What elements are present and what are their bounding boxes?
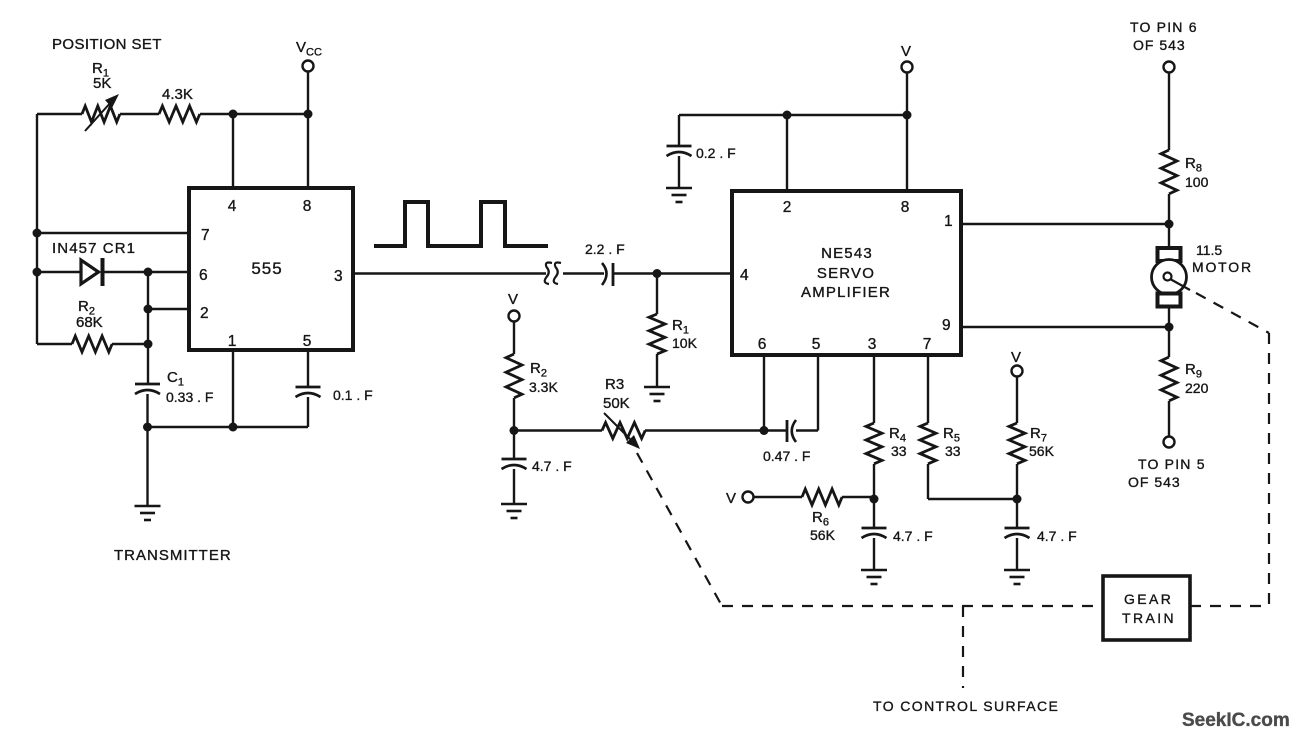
svg-text:6: 6	[758, 336, 767, 353]
resistor R2 68K	[72, 336, 112, 352]
pin 8 label	[303, 198, 312, 215]
pulse waveform	[374, 202, 548, 246]
pin 3 label NE543	[868, 336, 877, 353]
svg-text:3: 3	[334, 268, 343, 285]
wire V to R7	[1016, 377, 1018, 423]
pin 1 label	[228, 333, 237, 350]
svg-text:4.7 . F: 4.7 . F	[532, 458, 572, 474]
pin 7 label	[201, 227, 210, 244]
wire break to cap	[563, 272, 604, 274]
svg-text:TO PIN 6: TO PIN 6	[1130, 19, 1198, 35]
label R7 56K	[1029, 425, 1055, 459]
node 68K junction	[144, 340, 153, 349]
label 555	[251, 259, 282, 278]
label R4 33	[889, 425, 907, 459]
svg-text:4.3K: 4.3K	[162, 86, 193, 103]
svg-text:0.47 . F: 0.47 . F	[763, 448, 810, 464]
wire R9 to terminal	[1168, 401, 1170, 436]
label R6 56K	[810, 509, 836, 543]
wire diode cathode to pin 6	[103, 271, 190, 273]
svg-text:33: 33	[945, 443, 961, 459]
pin 1 label NE543	[944, 213, 953, 230]
svg-text:4.7 . F: 4.7 . F	[893, 528, 933, 544]
svg-text:AMPLIFIER: AMPLIFIER	[801, 284, 891, 301]
svg-text:1: 1	[228, 333, 237, 350]
wire to R9	[1168, 327, 1170, 357]
wire pin 2 up	[786, 115, 788, 191]
svg-text:V: V	[726, 490, 736, 507]
node R2 junction	[510, 426, 519, 435]
svg-text:TRANSMITTER: TRANSMITTER	[114, 547, 232, 564]
node R7 junction	[1013, 495, 1022, 504]
capacitor 4.7uF R2 branch	[502, 431, 527, 470]
pin 4 label	[228, 198, 237, 215]
ground 4.7uF R2 branch	[501, 504, 527, 518]
node pin2 junction	[144, 305, 153, 314]
svg-text:V: V	[508, 291, 518, 308]
resistor R2 68K label	[76, 298, 103, 331]
svg-text:4: 4	[228, 198, 237, 215]
diode CR1	[81, 258, 103, 286]
wire 68K left	[37, 343, 72, 345]
wire pin 1 down	[232, 350, 234, 427]
svg-text:GEAR: GEAR	[1124, 591, 1173, 607]
potentiometer R1 value label	[92, 60, 111, 92]
watermark SeekIC.com	[1182, 710, 1290, 731]
wire 0.2uF to ground	[678, 156, 680, 188]
wire R4 to junction	[873, 464, 875, 499]
wire top-left rail	[37, 113, 308, 115]
wire pin 3 down	[873, 355, 875, 423]
label 11.5 MOTOR	[1192, 242, 1253, 275]
capacitor 4.7uF R4	[862, 499, 887, 538]
wire ground stem transmitter	[146, 427, 148, 506]
op-amp 555 box	[189, 188, 353, 350]
svg-text:100: 100	[1185, 174, 1209, 190]
wire VCC to pin 8	[307, 72, 309, 188]
dashed link motor shaft	[1196, 293, 1269, 333]
wire 0.1uF to rail	[307, 397, 309, 427]
label V R6	[726, 490, 736, 507]
resistor R5 33	[920, 423, 936, 464]
pin 9 label NE543	[942, 317, 951, 334]
svg-text:5: 5	[812, 336, 821, 353]
label R3 50K	[603, 376, 630, 412]
wire junction to R3	[514, 429, 602, 431]
label IN457 CR1	[52, 240, 136, 257]
label 0.1uF	[333, 387, 373, 403]
wire R7 to junction	[1016, 464, 1018, 499]
pin 4 label NE543	[740, 267, 749, 284]
label V NE543	[901, 43, 911, 60]
wire R5 to R7 junction	[928, 464, 1017, 499]
terminal pin6 543	[1164, 62, 1175, 73]
label 0.2uF	[696, 145, 736, 161]
wire 68K right	[112, 343, 148, 345]
svg-text:OF 543: OF 543	[1133, 37, 1186, 53]
svg-text:1: 1	[944, 213, 953, 230]
wire mid vertical	[147, 272, 149, 384]
terminal V R6	[743, 492, 754, 503]
svg-text:6: 6	[199, 267, 208, 284]
wire pin 9 NE543	[961, 326, 1169, 328]
label R5 33	[943, 425, 961, 459]
svg-text:220: 220	[1185, 380, 1209, 396]
svg-text:4.7 . F: 4.7 . F	[1037, 528, 1077, 544]
wire pin 6 down	[763, 355, 765, 431]
label GEAR TRAIN	[1122, 591, 1176, 626]
svg-text:IN457 CR1: IN457 CR1	[52, 240, 136, 257]
wire rail corner to 0.2uF	[678, 115, 680, 146]
node bottom rail pin1	[229, 423, 238, 432]
pin 6 label	[199, 267, 208, 284]
ground R1	[644, 387, 670, 401]
potentiometer R3 50K	[602, 413, 645, 449]
wire pin 5 down	[817, 355, 819, 431]
svg-text:3: 3	[868, 336, 877, 353]
terminal pin5 543	[1164, 437, 1175, 448]
svg-text:0.1 . F: 0.1 . F	[333, 387, 373, 403]
label TRANSMITTER	[114, 547, 232, 564]
svg-text:TO PIN 5: TO PIN 5	[1138, 456, 1206, 472]
wire R6 to R4 junction	[842, 496, 874, 498]
dashed link gear train right	[1190, 605, 1269, 607]
svg-text:POSITION SET: POSITION SET	[52, 36, 162, 53]
wire terminal to R8	[1168, 73, 1170, 150]
wire to pin 7	[37, 232, 189, 234]
ground 4.7uF R4	[861, 570, 887, 584]
wire R3 to pin6 node	[645, 429, 764, 431]
svg-text:SeekIC.com: SeekIC.com	[1182, 710, 1290, 731]
node motor bottom junction	[1165, 323, 1174, 332]
label NE543 SERVO AMPLIFIER	[801, 245, 891, 301]
label C1 0.33uF	[166, 369, 213, 405]
node pin7 junction	[33, 229, 42, 238]
svg-text:TO CONTROL SURFACE: TO CONTROL SURFACE	[873, 698, 1059, 714]
label V R2	[508, 291, 518, 308]
pin 5 label	[303, 333, 312, 350]
ground 4.7uF R7	[1004, 570, 1030, 584]
svg-text:2.2 . F: 2.2 . F	[585, 241, 625, 257]
node junction top B	[304, 110, 313, 119]
resistor R7 56K	[1009, 423, 1025, 464]
label 2.2uF	[585, 241, 625, 257]
resistor R2 3.3K	[506, 354, 522, 398]
resistor R1 10K	[649, 314, 665, 354]
svg-text:68K: 68K	[76, 314, 103, 331]
svg-text:NE543: NE543	[821, 245, 873, 262]
terminal V R2	[509, 311, 520, 322]
label R8 100	[1185, 155, 1209, 190]
wire V to pin 8	[906, 73, 908, 191]
svg-text:2: 2	[200, 305, 209, 322]
dashed link control surface stem	[962, 606, 964, 688]
svg-text:0.2 . F: 0.2 . F	[696, 145, 736, 161]
label VCC	[296, 39, 322, 59]
dashed link R3 to gear train	[637, 453, 722, 606]
capacitor 4.7uF R7	[1005, 499, 1030, 538]
wire R1 10K top	[656, 274, 658, 315]
label R9 220	[1185, 361, 1209, 396]
svg-text:TRAIN: TRAIN	[1122, 610, 1176, 626]
label R2 3.3K	[529, 360, 558, 395]
node top rail pin2	[783, 111, 792, 120]
node pin6 cap junction	[760, 426, 769, 435]
motor M1	[1152, 248, 1191, 307]
dashed link horizontal to gear train	[722, 605, 1103, 607]
svg-text:56K: 56K	[1029, 443, 1055, 459]
pin 8 label NE543	[901, 199, 910, 216]
svg-text:7: 7	[923, 336, 932, 353]
svg-text:MOTOR: MOTOR	[1192, 259, 1253, 275]
pin 5 label NE543	[812, 336, 821, 353]
svg-text:50K: 50K	[603, 395, 630, 412]
label 0.47uF	[763, 448, 810, 464]
label V R7	[1011, 349, 1021, 366]
wire 4.7uF ground stem	[513, 469, 515, 504]
wire V to R2	[513, 322, 515, 354]
svg-text:8: 8	[901, 199, 910, 216]
wire diode anode	[37, 271, 81, 273]
svg-text:3.3K: 3.3K	[529, 379, 558, 395]
svg-text:8: 8	[303, 198, 312, 215]
svg-text:4: 4	[740, 267, 749, 284]
wire pin6 node to 0.47uF	[764, 429, 787, 431]
node motor top junction	[1165, 220, 1174, 229]
svg-text:33: 33	[891, 443, 907, 459]
potentiometer R1	[82, 94, 120, 131]
svg-text:V: V	[901, 43, 911, 60]
wire left vertical	[36, 114, 38, 344]
label 4.7uF R7	[1037, 528, 1077, 544]
node pin6 junction	[144, 268, 153, 277]
wire motor to pin9 rail	[1168, 306, 1170, 327]
node diode anode junction	[33, 268, 42, 277]
label TO CONTROL SURFACE	[873, 698, 1059, 714]
resistor R8 100	[1161, 150, 1177, 194]
wire break marks	[545, 263, 561, 285]
svg-text:0.33 . F: 0.33 . F	[166, 389, 213, 405]
svg-text:2: 2	[783, 199, 792, 216]
wire V to R6	[754, 496, 803, 498]
wire 4.7uF R4 ground stem	[873, 538, 875, 570]
svg-text:9: 9	[942, 317, 951, 334]
terminal V NE543	[902, 62, 913, 73]
wire to pin 2	[148, 308, 189, 310]
wire pin 7 down	[927, 355, 929, 423]
svg-text:555: 555	[251, 259, 282, 278]
capacitor 2.2uF	[602, 263, 613, 286]
pin 2 label	[200, 305, 209, 322]
label 4.7uF R4	[893, 528, 933, 544]
ground transmitter	[135, 506, 161, 520]
wire R8 to junction	[1168, 194, 1170, 248]
svg-text:OF 543: OF 543	[1128, 474, 1181, 490]
svg-text:SERVO: SERVO	[817, 265, 875, 282]
svg-text:7: 7	[201, 227, 210, 244]
wire 4.7uF R7 ground stem	[1016, 538, 1018, 570]
label R1 10K	[672, 317, 698, 351]
label 4.7uF R2 branch	[532, 458, 572, 474]
wire R1 to ground	[656, 354, 658, 387]
svg-text:5: 5	[303, 333, 312, 350]
pin 3 label	[334, 268, 343, 285]
op-amp NE543 box	[732, 191, 961, 355]
svg-text:10K: 10K	[672, 335, 698, 351]
wire R2 to junction	[513, 398, 515, 431]
node R4 junction	[870, 495, 879, 504]
wire NE543 top rail	[679, 114, 907, 116]
capacitor 0.47uF	[787, 420, 796, 442]
resistor R6 56K	[802, 489, 842, 505]
node bottom rail C1	[143, 423, 152, 432]
wire cap to pin 5	[796, 429, 818, 431]
pin 2 label NE543	[783, 199, 792, 216]
label 4.3K	[162, 86, 193, 103]
pin 6 label NE543	[758, 336, 767, 353]
terminal V R7	[1012, 366, 1023, 377]
resistor R4 33	[866, 423, 882, 464]
wire 555 pin3 output	[353, 272, 546, 274]
svg-text:56K: 56K	[810, 527, 836, 543]
node signal junction	[653, 269, 662, 278]
capacitor 0.2uF	[667, 146, 692, 156]
label TO PIN 5 OF 543	[1128, 456, 1206, 490]
terminal VCC	[303, 61, 314, 72]
wire pin 1 NE543	[961, 223, 1169, 225]
resistor R9 220	[1161, 357, 1177, 401]
capacitor 0.1uF	[296, 387, 321, 397]
dashed link right vertical	[1268, 333, 1270, 606]
svg-text:V: V	[1011, 349, 1021, 366]
wire bottom rail	[148, 426, 309, 428]
ground 0.2uF	[666, 188, 692, 202]
gear train box	[1103, 576, 1190, 640]
label TO PIN 6 OF 543	[1130, 19, 1198, 53]
wire pin 5 down	[307, 350, 309, 387]
label POSITION SET	[52, 36, 162, 53]
resistor 4.3K	[159, 106, 200, 122]
node top rail pin8	[903, 111, 912, 120]
svg-text:5K: 5K	[93, 75, 111, 92]
svg-text:R3: R3	[605, 376, 624, 393]
wire C1 to rail	[146, 394, 148, 427]
node junction top A	[229, 110, 238, 119]
pin 7 label NE543	[923, 336, 932, 353]
capacitor C1	[135, 384, 160, 394]
wire cap to pin 4	[613, 272, 732, 274]
wire junction to pin 4	[232, 114, 234, 188]
svg-text:11.5: 11.5	[1196, 242, 1222, 258]
